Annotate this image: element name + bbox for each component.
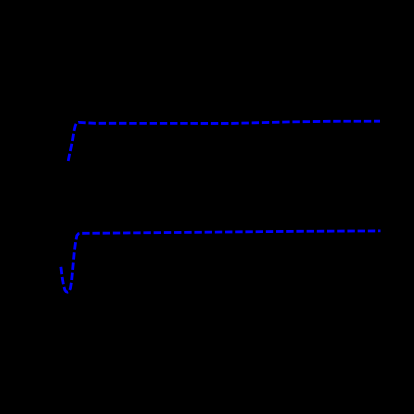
curve 1 (top dashed blue response) xyxy=(68,121,380,161)
curve 2 (bottom dashed blue response with dip) xyxy=(61,231,381,292)
